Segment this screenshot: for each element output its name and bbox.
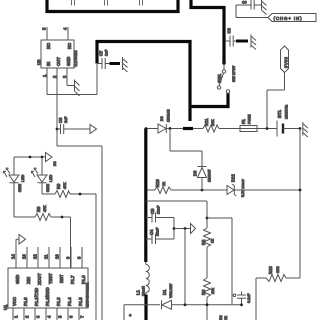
svg-text:47K: 47K (63, 182, 67, 189)
node on rail (145, 127, 148, 130)
svg-text:1k: 1k (211, 239, 215, 243)
pin marks of J1 (72, 0, 143, 6)
U5 pin 5 (46, 27, 48, 40)
ground C8 (251, 35, 256, 50)
wire bottom rail (124, 305, 160, 320)
connector J1 (cut off at top, thick border) (47, 0, 178, 12)
svg-text:BT1: BT1 (277, 109, 282, 118)
U5 pin 2 (56, 68, 58, 146)
wire D8 branch to D9 (170, 129, 202, 167)
resistor R9 (42, 193, 55, 195)
svg-text:10mH: 10mH (142, 286, 146, 296)
fuse F1 (240, 126, 257, 132)
svg-text:D3: D3 (53, 161, 57, 166)
svg-text:U5: U5 (37, 59, 42, 65)
wire thick inverter rail (144, 129, 147, 263)
node (240, 303, 243, 306)
svg-text:XOUT: XOUT (37, 273, 42, 285)
node (173, 227, 176, 230)
wire cap join (173, 218, 175, 240)
wire thick VIN drop right (191, 0, 224, 63)
svg-text:47K: 47K (43, 205, 47, 212)
svg-text:TEST: TEST (48, 273, 53, 284)
ground U5 (75, 80, 80, 97)
svg-text:1k: 1k (224, 316, 228, 320)
wire right rail corner (231, 290, 233, 305)
node (299, 189, 302, 192)
svg-text:D1: D1 (162, 289, 167, 295)
resistor R11 (193, 128, 203, 130)
wire pin3 to gnd (67, 85, 75, 87)
svg-text:VCC: VCC (12, 297, 17, 306)
svg-text:P1.1/TXD: P1.1/TXD (34, 288, 39, 306)
svg-text:2: 2 (25, 315, 30, 318)
svg-text:22nF: 22nF (157, 205, 161, 214)
svg-text:22nF: 22nF (156, 227, 160, 236)
wire top feedback (146, 201, 207, 228)
wire R9 down (95, 194, 97, 320)
svg-text:U1: U1 (3, 304, 8, 310)
svg-text:4: 4 (63, 27, 68, 30)
svg-text:R9: R9 (56, 183, 61, 189)
svg-text:R6: R6 (201, 289, 206, 295)
svg-text:C6: C6 (58, 117, 63, 123)
node (299, 127, 302, 130)
svg-text:LED: LED (49, 174, 53, 182)
svg-text:R13: R13 (268, 266, 273, 274)
svg-text:R11: R11 (204, 118, 209, 126)
wire flag down to battery line (267, 73, 285, 129)
svg-text:1uF: 1uF (105, 49, 109, 56)
svg-text:P1.5: P1.5 (78, 297, 83, 306)
resistor R10 (155, 187, 171, 194)
ground C7 (123, 57, 128, 72)
svg-text:1: 1 (42, 74, 47, 77)
capacitor C5 (146, 213, 174, 223)
battery BT1 (276, 121, 278, 137)
net flag VBAT vertical (281, 46, 289, 73)
svg-text:8: 8 (77, 256, 82, 259)
svg-text:FUSE: FUSE (248, 114, 252, 124)
wire LED bus (14, 156, 46, 158)
ground battery (303, 122, 308, 137)
svg-text:12V/7Ah: 12V/7Ah (285, 105, 289, 119)
svg-text:P1.0: P1.0 (23, 297, 28, 306)
arrow off-page C6 (90, 125, 97, 134)
wire battery line (146, 128, 158, 130)
svg-text:13: 13 (22, 254, 27, 259)
net flag CHG IN (268, 14, 316, 22)
svg-text:NC: NC (46, 43, 51, 49)
wire to charge flag (236, 5, 268, 18)
wire node down (184, 229, 186, 305)
thick stub C8 (236, 40, 248, 43)
svg-text:D8: D8 (160, 116, 164, 121)
wire thick below inductor (144, 295, 147, 320)
svg-text:MSP430G2231: MSP430G2231 (86, 282, 90, 307)
wire thick stub on battery line (183, 127, 193, 130)
resistor R6 (204, 278, 211, 297)
thick stub C7 (110, 62, 121, 65)
svg-text:10: 10 (55, 254, 60, 259)
svg-text:14: 14 (11, 254, 16, 259)
svg-text:C9: C9 (242, 1, 247, 5)
LED D3 right (41, 157, 43, 175)
svg-text:1uF: 1uF (64, 116, 68, 123)
capacitor C9 (236, 0, 261, 10)
wire battery minus down (299, 129, 301, 279)
U5 pin 1 (46, 68, 48, 95)
node (184, 303, 187, 306)
wire thick switch to rail (190, 93, 228, 106)
svg-text:3MM: 3MM (18, 184, 22, 192)
inductor L1 (146, 262, 150, 295)
wire thick 5V rail (97, 42, 190, 122)
svg-text:5: 5 (58, 315, 63, 318)
svg-text:10K: 10K (211, 119, 215, 126)
svg-text:P1.7: P1.7 (70, 275, 75, 284)
U1 top pins (16, 247, 82, 268)
wire zener row (146, 189, 155, 191)
diode D9 (198, 166, 207, 168)
arrow off-page LED bus (46, 153, 53, 162)
wire to battery (257, 128, 277, 130)
wire R8 to pin9 (70, 217, 72, 268)
svg-text:4: 4 (47, 315, 52, 318)
node (184, 227, 187, 230)
svg-text:D12: D12 (231, 174, 236, 182)
resistor R2 (204, 228, 211, 247)
diode D8 (158, 124, 166, 133)
svg-text:5.1V zener: 5.1V zener (241, 179, 245, 197)
svg-text:R8: R8 (36, 206, 41, 212)
svg-text:(CHG+ IN): (CHG+ IN) (274, 16, 303, 21)
svg-text:3: 3 (62, 75, 67, 78)
svg-text:20k: 20k (211, 288, 215, 294)
ground C9 (262, 0, 267, 15)
svg-text:P1.3: P1.3 (56, 297, 61, 306)
svg-text:11: 11 (44, 254, 49, 259)
LED D2 left (13, 157, 15, 175)
U5 pin 3 (66, 68, 68, 86)
svg-text:R10: R10 (155, 179, 160, 187)
U1 bottom pins (13, 308, 79, 320)
svg-text:7: 7 (80, 315, 85, 318)
svg-text:LED: LED (21, 174, 25, 182)
svg-text:5: 5 (42, 27, 47, 30)
svg-text:0.1uF: 0.1uF (247, 293, 251, 303)
svg-text:6: 6 (69, 315, 74, 318)
svg-text:3: 3 (36, 315, 41, 318)
svg-text:1: 1 (14, 315, 19, 318)
svg-text:P1.4: P1.4 (67, 297, 72, 306)
capacitor C6 (56, 128, 59, 131)
node (79, 193, 82, 196)
svg-text:R2: R2 (201, 239, 206, 245)
MCU U1 body (8, 268, 88, 308)
svg-text:3MM: 3MM (46, 184, 50, 192)
node (206, 217, 209, 220)
svg-text:GND: GND (66, 57, 71, 66)
svg-text:1k: 1k (162, 182, 166, 186)
svg-text:C4: C4 (149, 229, 154, 235)
arrow programming connector (19, 235, 26, 245)
node (41, 156, 44, 159)
capacitor C3 (233, 294, 236, 297)
svg-text:XIN: XIN (26, 277, 31, 284)
svg-text:F1: F1 (241, 118, 246, 124)
svg-text:IN: IN (46, 62, 51, 66)
regulator U5 body (41, 40, 74, 68)
wire OUT down-right (57, 146, 102, 320)
svg-text:P1.2/RXD: P1.2/RXD (45, 287, 50, 306)
U5 pin 4 (67, 27, 69, 40)
svg-text:C5: C5 (150, 208, 155, 214)
svg-text:12: 12 (33, 254, 38, 259)
svg-text:SW SPDT: SW SPDT (232, 65, 236, 82)
zener D12 (227, 186, 234, 195)
wire pin1 to rail (47, 64, 97, 95)
capacitor C4 (146, 234, 174, 244)
node D8 branch (169, 127, 172, 130)
svg-text:GND: GND (15, 275, 20, 284)
svg-text:P1.6: P1.6 (81, 275, 86, 284)
svg-text:L1: L1 (136, 289, 141, 295)
svg-text:SW1: SW1 (217, 73, 222, 83)
svg-text:OUT: OUT (56, 57, 61, 66)
svg-text:D9: D9 (193, 170, 198, 176)
svg-text:1N4007: 1N4007 (208, 169, 212, 182)
svg-text:2: 2 (52, 75, 57, 78)
svg-text:VR0.32V: VR0.32V (169, 283, 173, 298)
switch SW1 SPDT (223, 63, 225, 70)
capacitor C8 (226, 36, 236, 47)
node (266, 127, 269, 130)
node blob end (222, 61, 226, 65)
resistor R13 (286, 277, 300, 279)
svg-text:NC: NC (67, 43, 72, 49)
svg-text:TLV70433: TLV70433 (74, 50, 78, 67)
resistor R8 (14, 216, 35, 218)
svg-text:+: + (129, 313, 132, 318)
svg-text:C8: C8 (227, 27, 232, 33)
node (201, 189, 204, 192)
svg-text:R3: R3 (219, 315, 223, 320)
svg-text:RST: RST (59, 274, 64, 283)
node (206, 303, 209, 306)
node (61, 216, 64, 219)
svg-text:1N4148: 1N4148 (167, 109, 171, 122)
diode D1 (161, 300, 163, 309)
arrow feedback (191, 224, 196, 234)
node (29, 156, 32, 159)
svg-text:6K8: 6K8 (276, 266, 280, 273)
capacitor C7 (97, 58, 110, 69)
svg-text:9V06: 9V06 (283, 56, 288, 68)
svg-text:C7: C7 (99, 50, 104, 56)
svg-text:9: 9 (66, 256, 71, 259)
